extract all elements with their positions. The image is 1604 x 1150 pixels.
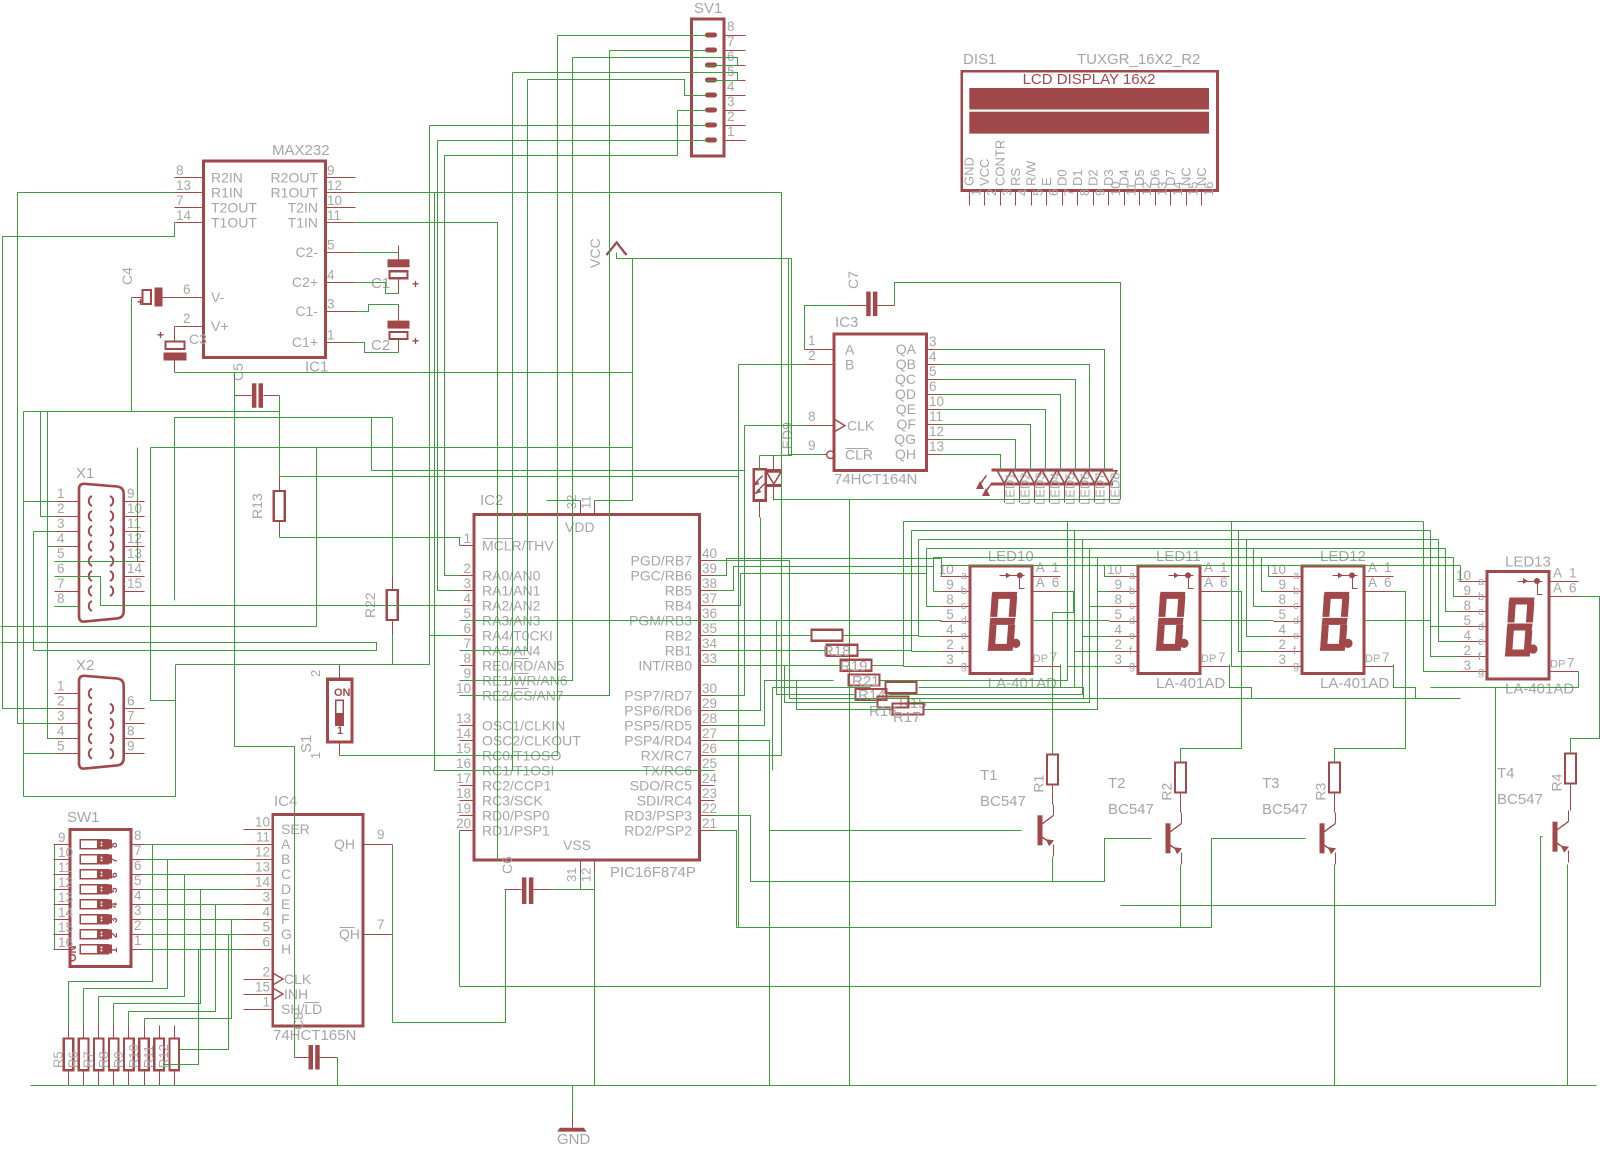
wire R18 out: [859, 650, 912, 652]
svg-text:1: 1: [808, 333, 816, 348]
svg-text:3: 3: [727, 94, 735, 109]
wire SW row to resistor tap 1: [69, 845, 153, 982]
svg-text:R2IN: R2IN: [211, 169, 243, 185]
svg-text:C1-: C1-: [295, 303, 318, 319]
capacitor C3: [166, 342, 185, 350]
LED10 pin 6 A: [1032, 591, 1061, 593]
svg-text:1: 1: [57, 679, 65, 694]
svg-text:C6: C6: [499, 856, 515, 874]
svg-text:40: 40: [702, 546, 717, 561]
SW1 pin 14 left: [54, 919, 71, 921]
SW1 pin 16 left: [54, 949, 71, 951]
wire IC3 pin1 from C7: [805, 306, 849, 350]
wire S1 bottom net: [340, 755, 460, 757]
wire segment comb LED12 idx0: [1269, 566, 1274, 577]
svg-text:C3: C3: [189, 331, 207, 347]
wire C5 right net: [279, 396, 281, 477]
LCD pin 1 GND: [969, 191, 971, 206]
power VCC symbol: [607, 243, 627, 256]
wire segment lane idx0: [942, 565, 1461, 567]
svg-text:1: 1: [727, 124, 735, 139]
svg-text:INT/RB0: INT/RB0: [638, 657, 692, 673]
IC2 pin 36 PGM/RB3: [700, 620, 715, 622]
svg-text:6: 6: [134, 858, 142, 873]
LED11 digit 8: [1159, 592, 1185, 599]
IC2 pin 8 RE0/RD/AN5: [460, 665, 475, 667]
svg-text:8: 8: [1278, 592, 1286, 607]
svg-text:7: 7: [1567, 656, 1575, 671]
X2 pin 3: [55, 723, 80, 725]
svg-text:5: 5: [463, 606, 471, 621]
svg-text:R7: R7: [81, 1051, 96, 1068]
svg-text:LCD DISPLAY 16x2: LCD DISPLAY 16x2: [1023, 71, 1156, 88]
LED LED4: [1042, 471, 1056, 484]
connector X1 body: [79, 484, 124, 622]
LED10 pin 5 segment d: [941, 621, 970, 623]
wire IC2 row28 to R21: [715, 681, 834, 726]
svg-text:13: 13: [58, 890, 73, 905]
IC3 pin 8 CLK: [806, 425, 835, 427]
wire SV1 pin2 net: [430, 125, 707, 127]
wire R21 out: [881, 667, 1068, 681]
wire R3 to T3 collector: [1334, 793, 1336, 813]
svg-text:11: 11: [327, 208, 341, 223]
connector X2 body: [79, 676, 124, 769]
wire segment comb LED13 idx5: [1431, 531, 1459, 657]
wire X1 pin3 net: [34, 531, 55, 533]
svg-text:31: 31: [564, 868, 579, 882]
svg-text:8: 8: [946, 592, 954, 607]
svg-text:d: d: [1293, 615, 1299, 627]
svg-text:C2-: C2-: [295, 244, 318, 260]
X1 pin 4: [55, 546, 80, 548]
svg-text:7: 7: [109, 857, 120, 863]
wire segment lane idx1: [934, 557, 1454, 559]
svg-text:A: A: [1204, 575, 1213, 590]
wire segment lane idx4: [919, 539, 1439, 541]
IC2 pin 18 RC3/SCK: [460, 800, 475, 802]
svg-text:PIC16F874P: PIC16F874P: [610, 864, 696, 881]
LED LED7: [1088, 471, 1102, 484]
IC1 pin 9 R2OUT: [326, 177, 356, 179]
IC2 pin 24 SDO/RC5: [700, 785, 715, 787]
wire SW1 pin7 to IC4 B: [145, 859, 244, 861]
IC1 pin 8 R2IN: [175, 177, 204, 179]
wire R22 bottom left run: [24, 665, 176, 797]
IC4 pin 6 H: [244, 949, 273, 951]
svg-text:g: g: [1129, 660, 1135, 672]
IC2 pin 35 RB2: [700, 635, 715, 637]
IC2 pin 23 SDI/RC4: [700, 800, 715, 802]
wire C8 right to ground bus: [337, 1058, 339, 1086]
wire VCC to IC3 CLR: [789, 259, 823, 455]
SW1 pin 4 right: [132, 904, 145, 906]
svg-text:RC3/SCK: RC3/SCK: [482, 792, 543, 808]
SW1 pin 6 right: [132, 874, 145, 876]
svg-text:T1OUT: T1OUT: [211, 214, 257, 230]
svg-text:10: 10: [127, 501, 142, 516]
svg-text:VCC: VCC: [587, 238, 603, 268]
svg-text:7: 7: [134, 843, 142, 858]
wire IC3 CLK net from IC2 row30: [745, 425, 806, 427]
svg-text:a: a: [1129, 570, 1136, 582]
wire IC2 pin16 TX crossing: [460, 770, 715, 772]
LED11 pin 6 A: [1201, 591, 1230, 593]
svg-text:PSP5/RD5: PSP5/RD5: [624, 717, 692, 733]
svg-text:12: 12: [127, 531, 142, 546]
svg-text:R2OUT: R2OUT: [271, 169, 319, 185]
svg-text:6: 6: [1384, 575, 1392, 590]
svg-text:VCC: VCC: [977, 159, 992, 186]
IC1 pin 6 V-: [175, 297, 204, 299]
resistor R21: [849, 675, 880, 686]
wire X2 pin5 net: [24, 502, 55, 754]
SW1 pin 3 right: [132, 919, 145, 921]
svg-text:13: 13: [176, 178, 191, 193]
svg-text:R2: R2: [1159, 782, 1175, 800]
svg-text:LED11: LED11: [1156, 548, 1201, 565]
wire bus447 drop left: [151, 448, 176, 701]
IC1 pin 5 C2-: [326, 252, 356, 254]
svg-text:C: C: [281, 866, 291, 882]
wire R1IN net: [18, 192, 175, 194]
svg-text:5: 5: [327, 237, 335, 252]
svg-text:11: 11: [256, 830, 270, 845]
svg-text:12: 12: [255, 845, 270, 860]
svg-text:S1: S1: [298, 735, 315, 753]
svg-text:QC: QC: [895, 371, 916, 387]
svg-text:RA0/AN0: RA0/AN0: [482, 567, 541, 583]
wire IC1 pin4 to C1: [356, 283, 399, 294]
SW1 pin 11 left: [54, 874, 71, 876]
svg-text:QE: QE: [896, 401, 916, 417]
SW1 pin 9 left: [54, 844, 71, 846]
svg-text:1: 1: [1220, 560, 1228, 575]
svg-text:10: 10: [929, 394, 944, 409]
svg-text:4: 4: [929, 349, 937, 364]
LED12 pin 5 segment d: [1274, 621, 1303, 623]
svg-text:T2IN: T2IN: [288, 199, 318, 215]
svg-text:4: 4: [727, 79, 735, 94]
wire segment comb LED11 idx2: [1090, 549, 1110, 607]
svg-text:R/W: R/W: [1023, 160, 1038, 186]
svg-text:16: 16: [1201, 182, 1216, 196]
wire T1IN net: [356, 223, 498, 861]
wire C6 right to VSS: [551, 889, 595, 891]
IC2 pin 37 RB4: [700, 605, 715, 607]
svg-text:1: 1: [1569, 566, 1577, 581]
svg-text:e: e: [1478, 636, 1484, 648]
svg-text:R6: R6: [66, 1051, 81, 1068]
svg-text:T3: T3: [1262, 775, 1280, 792]
LED11 pin 2 segment f: [1110, 651, 1139, 653]
wire segment comb LED10 idx6: [903, 522, 905, 667]
LED11 pin 4 segment e: [1110, 636, 1139, 638]
svg-text:DP: DP: [1550, 659, 1565, 671]
svg-text:C7: C7: [845, 271, 861, 289]
svg-text:RX/RC7: RX/RC7: [641, 747, 693, 763]
svg-text:RD3/PSP3: RD3/PSP3: [624, 807, 692, 823]
svg-text:RB2: RB2: [665, 627, 692, 643]
svg-text:H: H: [281, 941, 291, 957]
wire SW row to resistor tap 3: [99, 875, 185, 997]
svg-text:g: g: [1478, 666, 1484, 678]
ground GND symbol: [572, 1115, 574, 1128]
svg-text:R8: R8: [96, 1051, 111, 1068]
svg-text:32: 32: [564, 495, 579, 509]
svg-text:8: 8: [127, 724, 135, 739]
wire C4 drop: [131, 298, 133, 412]
svg-text:2: 2: [134, 918, 142, 933]
svg-text:R3: R3: [1313, 782, 1329, 800]
LED10 pin 3 segment g: [941, 666, 970, 668]
svg-text:B: B: [845, 357, 854, 373]
svg-text:T2OUT: T2OUT: [211, 199, 257, 215]
wire DP drop: [1230, 665, 1252, 699]
svg-text:14: 14: [176, 208, 192, 223]
wire SW row to resistor tap 7: [180, 935, 229, 1050]
X2 pin 1: [55, 693, 80, 695]
svg-text:9: 9: [127, 486, 135, 501]
LED11 pin 3 segment g: [1110, 666, 1139, 668]
LCD pin 8 D1: [1077, 191, 1079, 206]
svg-text:R1OUT: R1OUT: [271, 184, 319, 200]
wire segment comb LED13 idx0: [1459, 566, 1461, 582]
SW1 pin 5 right: [132, 889, 145, 891]
svg-text:A: A: [281, 836, 291, 852]
IC1 pin 12 R1OUT: [326, 192, 356, 194]
wire IC1 pin5 to C1: [356, 252, 399, 254]
resistor R6: [79, 1039, 89, 1071]
svg-text:5: 5: [1114, 607, 1122, 622]
svg-text:12: 12: [327, 178, 342, 193]
svg-text:12: 12: [929, 424, 944, 439]
LED10 pin 9 segment b: [941, 591, 970, 593]
svg-text:6: 6: [127, 694, 135, 709]
svg-text:8: 8: [808, 409, 816, 424]
wire C4 bus: [24, 411, 280, 413]
svg-text:RE0/RD/AN5: RE0/RD/AN5: [482, 657, 565, 673]
LED LED5: [1058, 471, 1072, 484]
IC IC4 74HCT165N body: [273, 814, 363, 1026]
svg-text:R13: R13: [249, 493, 265, 519]
IC2 pin 2 RA0/AN0: [460, 575, 475, 577]
wire IC2 pin6 jog: [430, 635, 460, 637]
LED11 pin 1 A: [1201, 576, 1230, 578]
svg-text:6: 6: [1046, 189, 1061, 196]
IC2 VDD pin 11: [594, 501, 596, 515]
svg-text:c: c: [1129, 600, 1135, 612]
wire IC2 pin20 down to bus986: [459, 831, 461, 987]
wire segment comb LED10 idx5: [911, 531, 913, 652]
svg-text:4: 4: [1463, 628, 1471, 643]
resistor R3: [1329, 763, 1340, 793]
svg-text:C1: C1: [371, 275, 390, 292]
svg-text:6: 6: [1220, 575, 1228, 590]
svg-text:R4: R4: [1549, 773, 1565, 791]
svg-text:22: 22: [702, 801, 717, 816]
svg-text:e: e: [1129, 630, 1135, 642]
svg-text:PSP4/RD4: PSP4/RD4: [624, 732, 692, 748]
svg-text:LA-401AD: LA-401AD: [1156, 675, 1225, 692]
SW1 pin 7 right: [132, 859, 145, 861]
svg-text:b: b: [1129, 585, 1135, 597]
svg-text:RD1/PSP1: RD1/PSP1: [482, 822, 550, 838]
svg-text:3: 3: [57, 709, 65, 724]
IC1 pin 7 T2OUT: [175, 207, 204, 209]
svg-text:27: 27: [702, 726, 717, 741]
LCD pin 13 D6: [1155, 191, 1157, 206]
svg-text:C2: C2: [371, 337, 390, 354]
wire DP drop: [1394, 665, 1416, 699]
svg-text:CONTR: CONTR: [992, 140, 1007, 186]
svg-text:4: 4: [463, 591, 471, 606]
wire segment comb LED10 idx0: [941, 559, 943, 577]
IC4 pin 12 B: [244, 859, 273, 861]
LED12 pin 9 segment b: [1274, 591, 1303, 593]
IC1 pin 14 T1OUT: [175, 222, 204, 224]
LED13 pin 7 DP: [1550, 671, 1579, 673]
wire R1 to T1 collector: [1052, 785, 1054, 805]
wire SV1 pin5 net: [513, 73, 738, 81]
IC2 pin 7 RA5/AN4: [460, 650, 475, 652]
IC4 pin 2 CLK: [244, 979, 273, 981]
wire T1 emitter: [1052, 857, 1054, 882]
wire SV1 pin6 net: [573, 58, 738, 66]
svg-text:14: 14: [456, 726, 472, 741]
IC2 pin 39 PGC/RB6: [700, 575, 715, 577]
wire segment comb LED13 idx4: [1439, 540, 1459, 642]
svg-text:5: 5: [1463, 613, 1471, 628]
LED12 pin 8 segment c: [1274, 606, 1303, 608]
LED12 pin 3 segment g: [1274, 666, 1303, 668]
IC2 pin 20 RD1/PSP1: [460, 830, 475, 832]
svg-text:74HCT165N: 74HCT165N: [273, 1027, 356, 1044]
IC2 VSS pin 31: [580, 861, 582, 874]
IC4 pin 4 F: [244, 919, 273, 921]
svg-text:20: 20: [456, 816, 471, 831]
wire segment comb LED11 idx0: [1105, 566, 1110, 577]
svg-text:4: 4: [134, 888, 142, 903]
IC2 pin 3 RA1/AN1: [460, 590, 475, 592]
wire SW1 pin3 to IC4 F: [145, 919, 244, 921]
wire IC2 row to segment bus: [715, 567, 934, 591]
wire segment comb LED12 idx6: [1232, 522, 1274, 667]
svg-text:5: 5: [946, 607, 954, 622]
LED12 pin 6 A: [1365, 591, 1394, 593]
LCD pin 14 D7: [1170, 191, 1172, 206]
X2 pin 2: [55, 708, 80, 710]
svg-text:9: 9: [377, 827, 385, 842]
wire SW1 pin2 to IC4 G: [145, 934, 244, 936]
svg-text:3: 3: [109, 917, 120, 923]
SW1 element 7: [80, 930, 108, 939]
wire R4 to T4 collector: [1570, 784, 1572, 811]
svg-text:A: A: [1368, 560, 1377, 575]
IC2 pin 14 OSC2/CLKOUT: [460, 740, 475, 742]
wire R16 out: [910, 607, 1090, 703]
svg-text:8: 8: [463, 651, 471, 666]
wire X1 pin6-8 net: [56, 577, 460, 606]
svg-text:DP: DP: [1365, 653, 1380, 665]
svg-text:8: 8: [1463, 598, 1471, 613]
LED12 pin 1 A: [1365, 576, 1394, 578]
wire VCC net: [617, 253, 792, 259]
wire segment lane idx5: [912, 530, 1431, 532]
X1 pin 8: [55, 606, 80, 608]
svg-text:7: 7: [176, 193, 184, 208]
wire IC3 QB to LED7: [942, 365, 1090, 471]
svg-text:8: 8: [727, 19, 735, 34]
svg-text:R9: R9: [111, 1051, 126, 1068]
LED13 pin 4 segment e: [1459, 641, 1488, 643]
svg-text:10: 10: [1456, 568, 1471, 583]
SW1 element 2: [80, 855, 108, 864]
svg-text:2: 2: [808, 348, 816, 363]
svg-text:d: d: [961, 615, 967, 627]
wire T4 base bus986: [460, 986, 1541, 988]
wire SW1 left common: [54, 845, 56, 950]
wire h476: [280, 476, 739, 478]
wire LED9 cathode drop: [773, 500, 775, 501]
svg-text:D1: D1: [1070, 169, 1085, 186]
IC4 pin 5 G: [244, 934, 273, 936]
svg-text:d: d: [1478, 621, 1484, 633]
svg-text:10: 10: [255, 815, 270, 830]
X1 pin 10: [124, 516, 145, 518]
svg-text:3: 3: [1278, 652, 1286, 667]
svg-text:D2: D2: [1085, 169, 1100, 186]
svg-text:2: 2: [183, 311, 191, 326]
LCD pin 2 VCC: [984, 191, 986, 206]
svg-text:14: 14: [58, 905, 74, 920]
LED13 pin 6 A: [1550, 596, 1579, 598]
LED13 pin 10 segment a: [1459, 581, 1488, 583]
wire DP bus row40: [715, 561, 1461, 699]
LCD pin 16 NC: [1201, 191, 1203, 206]
svg-text:13: 13: [255, 860, 270, 875]
svg-text:6: 6: [183, 282, 191, 297]
svg-text:7: 7: [727, 34, 735, 49]
svg-text:X1: X1: [76, 465, 94, 482]
svg-text:A: A: [1368, 575, 1377, 590]
wire IC2 pin4 bus from X1: [101, 605, 460, 607]
svg-text:11: 11: [127, 516, 141, 531]
LED13 pin 8 segment c: [1459, 611, 1488, 613]
X1 pin 3: [55, 531, 80, 533]
IC3 pin 12 QG: [927, 439, 942, 441]
wire C6 left down: [393, 890, 506, 1023]
svg-text:7: 7: [127, 709, 135, 724]
svg-text:e: e: [961, 630, 967, 642]
svg-text:8: 8: [57, 591, 65, 606]
svg-text:8: 8: [1114, 592, 1122, 607]
svg-text:4: 4: [327, 267, 335, 282]
svg-text:BC547: BC547: [1262, 801, 1308, 818]
resistor R11: [154, 1039, 164, 1071]
svg-text:IC4: IC4: [274, 793, 297, 810]
svg-text:6: 6: [1569, 581, 1577, 596]
svg-text:C1+: C1+: [292, 334, 318, 350]
svg-text:LED13: LED13: [1505, 554, 1551, 571]
IC2 pin 22 RD3/PSP3: [700, 815, 715, 817]
SV1 pin 3: [705, 108, 717, 113]
wire IC2 row22 to T2 base: [715, 816, 1152, 882]
wire bus417 drop left: [174, 418, 176, 601]
svg-text:9: 9: [1114, 577, 1122, 592]
svg-text:30: 30: [702, 681, 717, 696]
IC1 pin 3 C1-: [326, 311, 356, 313]
